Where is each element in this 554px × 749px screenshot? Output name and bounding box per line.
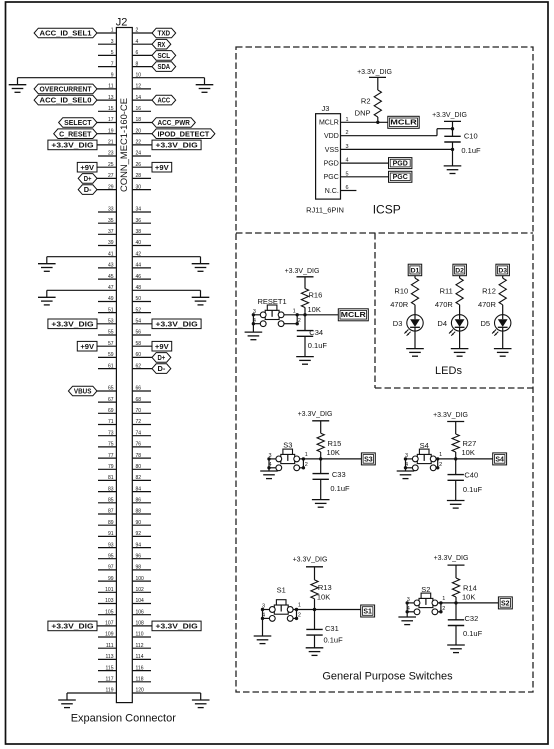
J2 pin 42 (132, 257, 200, 264)
S4 right pins tie wire (437, 459, 439, 468)
switch S2 body (414, 585, 438, 615)
svg-text:70: 70 (136, 408, 142, 414)
svg-text:PGD: PGD (393, 161, 408, 168)
svg-text:40: 40 (136, 240, 142, 246)
wire power to R2 (377, 77, 379, 90)
svg-text:21: 21 (108, 140, 114, 146)
svg-text:10K: 10K (462, 448, 475, 457)
svg-text:60: 60 (136, 352, 142, 358)
J2 pin 115 (98, 665, 116, 671)
svg-text:RX: RX (158, 40, 166, 49)
svg-text:66: 66 (136, 386, 142, 392)
svg-text:IPOD_DETECT: IPOD_DETECT (157, 129, 209, 138)
J3 pin 4 wire (PGD) (341, 158, 389, 164)
J2 pin 91 (98, 531, 116, 537)
S2 pin 3 wire (407, 597, 414, 603)
svg-text:67: 67 (108, 397, 114, 403)
J2 pin 51 (98, 307, 116, 313)
ground below C34 (296, 357, 314, 365)
resistor R16 (301, 289, 322, 308)
svg-text:62: 62 (136, 363, 142, 369)
svg-text:+3.3V_DIG: +3.3V_DIG (156, 141, 198, 150)
S4 pin 4 stub (405, 462, 412, 468)
J2 pin 65 (97, 386, 116, 392)
svg-text:120: 120 (136, 688, 145, 694)
S1 pin 4 stub (262, 613, 269, 619)
net label +3.3V_DIG (J2 pin 53) (48, 319, 97, 329)
J2 pin 14 (132, 95, 152, 101)
svg-text:47: 47 (108, 285, 114, 291)
svg-text:2: 2 (136, 28, 139, 34)
svg-text:1: 1 (346, 117, 349, 123)
svg-text:PGC: PGC (324, 174, 339, 181)
svg-text:107: 107 (105, 621, 114, 627)
net label S1 (361, 605, 375, 617)
J3 pin 6 stub (N.C.) (341, 185, 357, 191)
capacitor C33 (313, 470, 346, 480)
svg-text:117: 117 (106, 677, 114, 683)
svg-text:53: 53 (108, 319, 114, 325)
J2 pin 19 (97, 128, 116, 134)
svg-text:MCLR: MCLR (390, 120, 416, 127)
svg-text:4: 4 (346, 158, 349, 164)
wire node to S3 label (321, 458, 362, 460)
J2 pin 67 (98, 397, 116, 403)
J2 pin 90 (132, 520, 151, 526)
svg-text:+9V: +9V (80, 163, 95, 172)
net label SELECT (J2 pin 17) (59, 118, 97, 128)
svg-text:27: 27 (108, 173, 114, 179)
svg-text:C31: C31 (325, 624, 339, 633)
svg-text:PGC: PGC (393, 174, 408, 181)
J2 pin 8 (132, 61, 152, 67)
ground below C10 (444, 166, 462, 174)
svg-text:34: 34 (136, 207, 142, 213)
capacitor C10 (444, 131, 477, 142)
wire power to R16 (304, 277, 306, 289)
svg-text:85: 85 (108, 498, 114, 504)
svg-text:ACC_ID_SEL1: ACC_ID_SEL1 (40, 29, 93, 38)
svg-text:109: 109 (105, 632, 114, 638)
svg-text:D3: D3 (498, 267, 507, 274)
junction node S4 (454, 457, 457, 460)
S4 pin 1 wire (436, 452, 456, 459)
svg-text:83: 83 (108, 486, 114, 492)
capacitor C31 (306, 624, 338, 635)
J2 pin 85 (98, 498, 116, 504)
svg-text:ACC_PWR: ACC_PWR (158, 118, 191, 127)
J2 pin 7 (98, 61, 116, 67)
J2 pin 107 (97, 621, 116, 627)
wire D3 to R12 (502, 276, 504, 278)
svg-text:44: 44 (136, 263, 142, 269)
J2 pin 28 (132, 173, 151, 179)
svg-text:56: 56 (136, 330, 142, 336)
net label MCLR (ICSP) (388, 116, 419, 128)
svg-text:+3.3V_DIG: +3.3V_DIG (156, 319, 198, 328)
svg-text:37: 37 (108, 229, 114, 235)
J2 pin 23 (98, 151, 116, 157)
connector J3 body (316, 104, 341, 199)
net label +3.3V_DIG (J2 pin 54) (152, 319, 201, 329)
switch S4 body (412, 441, 436, 471)
wire +3.3V_DIG to C10 (452, 121, 454, 136)
svg-text:1: 1 (305, 452, 308, 458)
svg-text:5: 5 (346, 171, 349, 177)
svg-text:470R: 470R (478, 300, 497, 309)
resistor R27 (452, 434, 476, 452)
junction S1 pin 3 (261, 608, 264, 611)
svg-text:+3.3V_DIG: +3.3V_DIG (433, 412, 468, 419)
svg-text:69: 69 (108, 408, 114, 414)
J2 pin 38 (132, 229, 151, 235)
svg-text:102: 102 (136, 587, 145, 593)
junction S2 pin 4 (406, 610, 409, 613)
svg-text:74: 74 (136, 430, 142, 436)
svg-text:89: 89 (108, 520, 114, 526)
svg-text:VDD: VDD (324, 133, 339, 140)
junction VDD / +3.3V_DIG / C10 (451, 127, 454, 130)
J2 pin 52 (132, 307, 151, 313)
J3 pin 1 wire (MCLR net) (341, 117, 388, 123)
J2 pin 6 (132, 50, 152, 56)
wire RESET1 to ground (252, 324, 254, 332)
J2 pin 62 (132, 363, 152, 369)
junction S2 pin 3 (406, 601, 409, 604)
svg-text:Expansion Connector: Expansion Connector (71, 713, 177, 725)
svg-text:MCLR: MCLR (319, 120, 339, 127)
wire node to C32 (455, 603, 457, 620)
svg-text:17: 17 (108, 117, 114, 123)
junction RESET1 pin 3 (252, 313, 255, 316)
svg-text:ACC_ID_SEL0: ACC_ID_SEL0 (40, 96, 92, 105)
svg-text:72: 72 (136, 419, 142, 425)
J2 pin 73 (98, 430, 116, 436)
svg-text:24: 24 (136, 151, 142, 157)
wire node to S4 label (456, 458, 493, 460)
J2 pin 1 (97, 28, 116, 34)
J3 pin 2 wire (VDD) (341, 129, 453, 137)
J2 pin 43 (98, 263, 116, 269)
svg-text:13: 13 (108, 95, 114, 101)
J2 pin 106 (132, 609, 151, 615)
ground below LED D5 (494, 349, 512, 357)
svg-text:71: 71 (108, 419, 114, 425)
resistor R11 (440, 278, 464, 305)
J2 pin 96 (132, 553, 151, 559)
svg-text:93: 93 (108, 542, 114, 548)
svg-text:10K: 10K (462, 593, 475, 602)
J2 pin 117 (98, 677, 116, 683)
S3 pin 3 wire (269, 453, 276, 459)
net label OVERCURRENT (J2 pin 11) (34, 84, 97, 94)
svg-text:49: 49 (108, 296, 114, 302)
svg-text:116: 116 (136, 665, 144, 671)
RESET1 pin 2 stub (284, 318, 301, 324)
svg-text:+3.3V_DIG: +3.3V_DIG (51, 141, 93, 150)
J2 pin 101 (98, 587, 116, 593)
wire node to C40 (455, 459, 457, 475)
J2 pin 99 (98, 576, 116, 582)
J2 pin 87 (98, 509, 116, 515)
svg-text:DNP: DNP (355, 109, 371, 118)
svg-text:57: 57 (108, 341, 114, 347)
LEDs section dashed box (375, 233, 533, 388)
wire node to S2 label (456, 602, 498, 604)
J2 pin 100 (132, 576, 151, 582)
resistor R13 (311, 580, 332, 599)
J2 pin 70 (132, 408, 151, 414)
svg-text:0.1uF: 0.1uF (330, 484, 350, 493)
svg-text:470R: 470R (390, 300, 409, 309)
svg-text:76: 76 (136, 442, 142, 448)
power +3.3V_DIG above R15 (298, 411, 333, 421)
net label ACC (J2 pin 14) (152, 95, 176, 105)
J2 pin 26 (132, 162, 152, 168)
J2 pin 10 (132, 78, 204, 85)
svg-text:D5: D5 (481, 319, 491, 328)
svg-text:52: 52 (136, 307, 142, 313)
J2 pin 83 (98, 486, 116, 492)
ground below C31 (306, 648, 324, 656)
resistor R15 (317, 433, 341, 452)
svg-text:36: 36 (136, 218, 142, 224)
svg-text:D1: D1 (411, 267, 420, 274)
svg-text:8: 8 (136, 61, 139, 67)
J2 pin 97 (98, 565, 116, 571)
svg-text:TXD: TXD (157, 29, 170, 38)
svg-text:88: 88 (136, 509, 142, 515)
S4 pin 2 stub (436, 462, 442, 468)
J2 pin 40 (132, 240, 151, 246)
J2 pin 80 (132, 464, 151, 470)
LED D4 (437, 315, 467, 336)
ground below C40 (447, 501, 465, 509)
S1 pin 2 stub (293, 612, 301, 618)
net label C_RESET (J2 pin 19) (54, 129, 97, 139)
J2 pin 13 (97, 95, 116, 101)
svg-text:22: 22 (136, 140, 142, 146)
wire LED D3 to ground (414, 331, 416, 349)
wire power to R14 (455, 565, 457, 578)
svg-text:+3.3V_DIG: +3.3V_DIG (156, 622, 198, 631)
svg-text:2: 2 (298, 612, 301, 618)
RESET1 left pins tie wire (252, 315, 254, 324)
wire R10 to LED D3 (414, 305, 416, 315)
J2 pin 53 (97, 319, 116, 325)
wire S3 to ground (268, 468, 270, 471)
junction S3 pin 3 (267, 457, 270, 460)
J2 pin 116 (132, 665, 151, 671)
svg-text:29: 29 (108, 184, 114, 190)
J2 pin 88 (132, 509, 151, 515)
J2 pin 54 (132, 319, 152, 325)
J2 pin 103 (98, 598, 116, 604)
svg-text:C10: C10 (464, 131, 478, 140)
svg-text:119: 119 (106, 688, 114, 694)
junction node MCLR (303, 313, 306, 316)
svg-text:61: 61 (108, 363, 114, 369)
svg-text:R12: R12 (482, 287, 496, 296)
svg-text:28: 28 (136, 173, 142, 179)
svg-text:D-: D- (84, 185, 92, 194)
J2 pin 74 (132, 430, 151, 436)
J2 pin 93 (98, 542, 116, 548)
S1 pin 1 wire (293, 603, 314, 610)
svg-text:10K: 10K (317, 593, 330, 602)
J2 pin 92 (132, 531, 151, 537)
svg-text:2: 2 (442, 606, 445, 612)
svg-text:6: 6 (136, 50, 139, 56)
svg-text:S1: S1 (277, 586, 286, 595)
svg-text:30: 30 (136, 184, 142, 190)
svg-text:PGD: PGD (324, 161, 339, 168)
svg-text:MCLR: MCLR (341, 312, 366, 319)
J2 pin 21 (97, 140, 116, 146)
svg-text:S1: S1 (363, 608, 372, 615)
svg-text:68: 68 (136, 397, 142, 403)
svg-text:100: 100 (136, 576, 145, 582)
net label D2 (LED string) (453, 264, 467, 276)
RESET1 pin 4 stub (253, 318, 260, 324)
svg-text:114: 114 (136, 654, 144, 660)
J2 pin 45 (98, 274, 116, 280)
svg-text:R13: R13 (318, 583, 332, 592)
net label D1 (LED string) (408, 264, 422, 276)
svg-text:12: 12 (136, 84, 142, 90)
J2 pin 82 (132, 475, 151, 481)
svg-text:104: 104 (136, 598, 145, 604)
svg-text:0.1uF: 0.1uF (463, 485, 483, 494)
ground below S3 (260, 471, 278, 479)
switch S3 body (276, 440, 300, 470)
svg-text:11: 11 (108, 84, 113, 90)
wire R2 to MCLR node (377, 117, 379, 122)
J2 pin 66 (132, 386, 151, 392)
wire power to R27 (455, 422, 457, 435)
junction node S1 (313, 608, 316, 611)
J2 pin 25 (97, 162, 116, 168)
svg-text:75: 75 (108, 442, 114, 448)
wire D1 to R10 (414, 276, 416, 278)
svg-text:S4: S4 (495, 456, 504, 463)
junction S2 pin 1 (439, 601, 442, 604)
S3 pin 1 wire (300, 452, 321, 459)
net label D3 (LED string) (496, 264, 510, 276)
svg-text:S4: S4 (420, 441, 429, 450)
svg-text:48: 48 (136, 285, 142, 291)
S2 left pins tie wire (406, 603, 408, 612)
svg-text:R10: R10 (394, 287, 408, 296)
S3 pin 4 stub (269, 462, 276, 468)
svg-text:106: 106 (136, 609, 145, 615)
RESET1 pin 1 wire (284, 308, 305, 315)
S1 left pins tie wire (262, 610, 264, 619)
J2 pin 102 (132, 587, 151, 593)
wire LED D5 to ground (502, 331, 504, 349)
svg-text:470R: 470R (435, 300, 454, 309)
svg-text:50: 50 (136, 296, 142, 302)
J3 pin 3 wire (VSS) (341, 144, 453, 150)
svg-text:5: 5 (111, 50, 114, 56)
ground below LED D3 (406, 349, 424, 357)
svg-text:CONN_MEC1-160-CE: CONN_MEC1-160-CE (119, 98, 129, 192)
capacitor C32 (448, 614, 478, 626)
svg-text:+3.3V_DIG: +3.3V_DIG (432, 112, 467, 119)
junction S3 pin 4 (267, 466, 270, 469)
J2 pin 81 (98, 475, 116, 481)
svg-text:OVERCURRENT: OVERCURRENT (40, 85, 92, 94)
svg-text:S2: S2 (421, 585, 430, 594)
svg-text:81: 81 (108, 475, 114, 481)
net label SDA (J2 pin 8) (152, 62, 176, 72)
S2 pin 2 stub (438, 606, 446, 612)
wire R12 to LED D5 (502, 305, 504, 315)
junction S4 pin 4 (404, 466, 407, 469)
net label ACC_ID_SEL1 (J2 pin 1) (34, 28, 97, 38)
svg-text:91: 91 (108, 531, 114, 537)
svg-text:SDA: SDA (157, 62, 170, 71)
ground at J2 pin 41 (38, 264, 56, 272)
svg-text:10K: 10K (308, 305, 321, 314)
ground at J2 pin 120 (192, 700, 210, 708)
ground below S1 (254, 636, 272, 644)
net label TXD (J2 pin 2) (152, 28, 176, 38)
wire R14 to node (455, 597, 457, 603)
wire S1 to ground (262, 618, 264, 636)
net label +9V (J2 pin 25) (77, 162, 97, 172)
svg-text:+3.3V_DIG: +3.3V_DIG (51, 622, 93, 631)
svg-text:54: 54 (136, 319, 142, 325)
switch S1 body (269, 586, 293, 622)
svg-text:51: 51 (108, 307, 114, 313)
S4 left pins tie wire (405, 459, 407, 468)
wire C32 to ground (455, 626, 457, 646)
J2 pin 55 (98, 330, 116, 336)
J2 pin 15 (98, 106, 116, 112)
net label +9V (J2 pin 58) (152, 341, 172, 351)
svg-text:R27: R27 (463, 439, 477, 448)
svg-text:39: 39 (108, 240, 114, 246)
svg-text:R14: R14 (463, 583, 477, 592)
ground at J2 pin 119 (58, 700, 76, 708)
resistor R2 (361, 90, 381, 117)
svg-text:78: 78 (136, 453, 142, 459)
svg-text:14: 14 (136, 95, 142, 101)
J2 pin 12 (132, 84, 151, 90)
wire R27 to node (455, 452, 457, 459)
J2 pin 112 (132, 643, 151, 649)
svg-text:9: 9 (111, 72, 114, 78)
svg-text:D-: D- (158, 364, 166, 373)
svg-text:23: 23 (108, 151, 114, 157)
svg-text:D4: D4 (437, 319, 447, 328)
svg-text:95: 95 (108, 553, 114, 559)
J2 pin 110 (132, 632, 151, 638)
svg-text:1: 1 (439, 452, 442, 458)
svg-text:25: 25 (108, 162, 114, 168)
svg-text:15: 15 (108, 106, 114, 112)
ground below RESET1 (245, 332, 263, 340)
wire node to MCLR label (305, 314, 338, 316)
J2 pin 30 (132, 184, 151, 190)
J2 pin 72 (132, 419, 151, 425)
svg-text:115: 115 (106, 665, 114, 671)
J2 pin 22 (132, 140, 152, 146)
J2 pin 36 (132, 218, 151, 224)
J2 pin 71 (98, 419, 116, 425)
svg-text:+3.3V_DIG: +3.3V_DIG (51, 319, 93, 328)
